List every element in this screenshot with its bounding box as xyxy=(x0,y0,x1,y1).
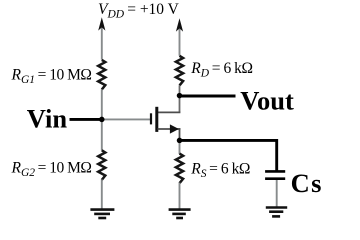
power arrow VDD right xyxy=(176,18,183,31)
ground (middle, under RS) xyxy=(169,210,191,218)
wire: RG1 bottom to RG2 top (through Vin node) xyxy=(101,89,103,150)
svg-text:Vin: Vin xyxy=(27,104,68,134)
ground (right, under Cs) xyxy=(266,208,287,217)
transistor Q1 source arrow xyxy=(170,124,179,133)
node: drain node dot xyxy=(177,93,183,99)
wire: gate wire to transistor xyxy=(102,118,150,120)
wire: VDD supply line left (to RG1) xyxy=(101,22,103,60)
svg-text:RD = 6 kΩ: RD = 6 kΩ xyxy=(190,60,252,79)
wire: source node down to RS xyxy=(179,140,181,154)
wire: RG2 bottom to ground xyxy=(101,179,103,209)
node: gate node dot xyxy=(99,117,105,123)
resistor RS xyxy=(176,154,183,184)
capacitor Cs bottom plate xyxy=(265,177,285,180)
svg-text:RS = 6 kΩ: RS = 6 kΩ xyxy=(190,161,250,180)
wire: VDD supply line right (to RD) xyxy=(179,23,181,56)
resistor RD xyxy=(176,56,183,86)
power arrow VDD left xyxy=(98,17,105,30)
wire: capacitor to ground xyxy=(276,180,278,207)
transistor Q1 gate bar xyxy=(150,113,152,124)
wire: RS bottom to ground xyxy=(179,183,181,210)
node: source node dot xyxy=(177,138,183,144)
wire: source node to capacitor (thick) xyxy=(180,140,277,171)
svg-text:Vout: Vout xyxy=(240,85,294,115)
wire: Vin lead (thick) xyxy=(70,118,102,121)
wire: Vout lead (thick) xyxy=(180,94,236,97)
svg-text:Cs: Cs xyxy=(291,168,323,198)
resistor RG1 xyxy=(98,60,105,90)
resistor RG2 xyxy=(98,150,105,180)
ground (left, under RG2) xyxy=(90,210,114,218)
wire: source corner down to source node xyxy=(179,128,181,140)
transistor Q1 channel bar xyxy=(155,107,158,132)
transistor Q1 source lead xyxy=(158,128,181,130)
wire: RD bottom to drain corner xyxy=(179,85,181,112)
capacitor Cs top plate xyxy=(265,170,285,173)
transistor Q1 drain lead xyxy=(158,111,181,113)
